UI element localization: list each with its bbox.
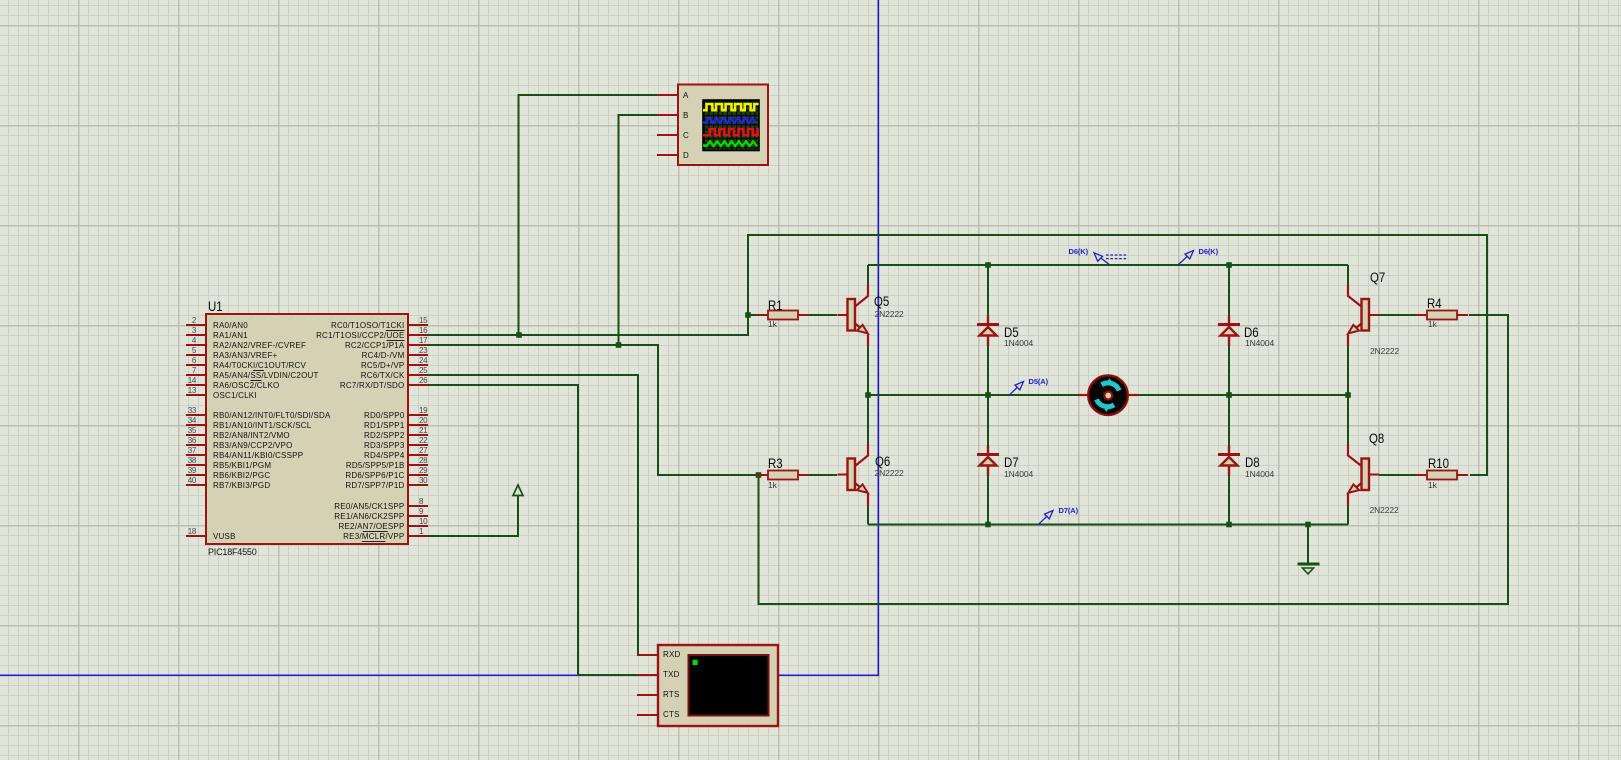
resistor R10 bbox=[1416, 471, 1468, 480]
R3 reference label bbox=[768, 457, 783, 470]
U1 pin 5 RA3/AN3/VREF+ bbox=[168, 346, 196, 355]
D8 reference label bbox=[1245, 456, 1260, 469]
U1 pin 30 RD7/SPP7/P1D bbox=[419, 476, 427, 485]
oscilloscope screen bbox=[703, 100, 759, 151]
transistor Q8 bbox=[1348, 444, 1379, 506]
wire D7 anode to ground rail bbox=[987, 476, 989, 525]
wire Q5 emitter to motor rail bbox=[867, 346, 869, 395]
resistor R4 bbox=[1416, 311, 1468, 320]
virtual terminal body bbox=[658, 645, 778, 726]
wire motor rail left bbox=[868, 394, 1078, 396]
U1 pin 6 RA4/T0CKI/C1OUT/RCV bbox=[168, 356, 196, 365]
wire D6 cathode riser bbox=[1228, 265, 1230, 316]
U1 PIC18F4550 body bbox=[206, 314, 408, 544]
transistor Q5 bbox=[838, 285, 869, 347]
wire Q8 collector to motor rail bbox=[1347, 395, 1349, 445]
U1 pin 38 RB5/KBI1/PGM bbox=[168, 456, 196, 465]
U1 pin 1 RE3/MCLR/VPP bbox=[419, 527, 423, 536]
wire motor rail right bbox=[1138, 394, 1348, 396]
wire Q7 emitter to motor rail bbox=[1347, 346, 1349, 395]
wire RC7 pin26 to terminal TXD bbox=[428, 385, 657, 675]
U1 pin 36 RB3/AN9/CCP2/VPO bbox=[168, 436, 196, 445]
node D5 anode junction bbox=[985, 392, 991, 398]
resistor R3 bbox=[757, 471, 809, 480]
oscilloscope trace channel C red bbox=[703, 129, 759, 135]
diode D6 bbox=[1218, 316, 1240, 346]
terminal pin label CTS bbox=[663, 710, 680, 720]
U1 pin 35 RB2/AN8/INT2/VMO bbox=[168, 426, 196, 435]
oscilloscope pin label A bbox=[683, 91, 689, 101]
oscilloscope body bbox=[678, 85, 768, 166]
wire Q8 emitter drop bbox=[1347, 505, 1349, 525]
wire Q5 collector riser bbox=[867, 265, 869, 285]
U1 pin 40 RB7/KBI3/PGD bbox=[168, 476, 196, 485]
R1 reference label bbox=[768, 299, 783, 312]
U1 pin 9 RE1/AN6/CK2SPP bbox=[419, 507, 423, 516]
net label arrow D7(A) bbox=[1038, 511, 1053, 525]
wire oscilloscope B to RC2 net bbox=[619, 115, 658, 345]
sheet border horizontal line bbox=[0, 674, 879, 676]
virtual terminal pin stubs RXD TXD RTS CTS bbox=[637, 655, 658, 715]
virtual terminal cursor bbox=[693, 660, 698, 665]
node R1 left junction bbox=[745, 312, 751, 318]
net label arrow D5(A) bbox=[1009, 382, 1024, 396]
wire Q8 base to R10 left bbox=[1379, 474, 1416, 476]
U1 pin 10 RE2/AN7/OESPP bbox=[419, 517, 427, 526]
transistor Q6 bbox=[838, 444, 869, 506]
net label arrow D6(K) left bbox=[1094, 253, 1109, 264]
D7 value label bbox=[1004, 470, 1033, 478]
wire R1 left node stub bbox=[748, 314, 758, 316]
wire R3 right to Q6 base bbox=[808, 474, 837, 476]
U1 pin 17 RC2/CCP1/P1A bbox=[419, 336, 427, 345]
node ground junction bbox=[1305, 522, 1311, 528]
wire R3 node to bottom rail to R4 right node bbox=[759, 315, 1509, 604]
net label D6(K) left bbox=[1069, 248, 1089, 256]
node D8 anode junction bbox=[1226, 522, 1232, 528]
U1 pin 37 RB4/AN11/KBI0/CSSPP bbox=[168, 446, 196, 455]
oscilloscope pin stubs A B C D bbox=[657, 95, 678, 155]
Q6 value label bbox=[875, 469, 904, 477]
D5 value label bbox=[1004, 339, 1033, 347]
U1 pin 15 RC0/T1OSO/T1CKI bbox=[419, 316, 427, 325]
wire VCC rail (Q5/Q7 collectors, D5/D6 cathodes) bbox=[868, 264, 1348, 266]
D6 value label bbox=[1245, 339, 1274, 347]
wire D6 anode to motor rail bbox=[1228, 346, 1230, 396]
wire R10 right bbox=[1470, 474, 1487, 476]
R4 value label bbox=[1428, 320, 1437, 328]
U1 pin 39 RB6/KBI2/PGC bbox=[168, 466, 196, 475]
wire Q7 base to R4 left bbox=[1379, 314, 1417, 316]
U1 right pin stubs bbox=[408, 325, 428, 536]
Q7 value label bbox=[1370, 347, 1399, 355]
node D7 anode junction bbox=[985, 522, 991, 528]
U1 pin 24 RC5/D+/VP bbox=[419, 356, 427, 365]
D7 reference label bbox=[1004, 456, 1019, 469]
U1 pin 28 RD5/SPP5/P1B bbox=[419, 456, 427, 465]
net label D7(A) bbox=[1059, 507, 1079, 515]
U1 pin 22 RD3/SPP3 bbox=[419, 436, 427, 445]
wire D8 cathode riser bbox=[1228, 395, 1230, 446]
node D6 cathode junction bbox=[1226, 262, 1232, 268]
ground symbol bbox=[1298, 564, 1320, 574]
R10 reference label bbox=[1428, 457, 1449, 470]
R10 value label bbox=[1428, 481, 1437, 489]
Q7 reference label bbox=[1370, 271, 1385, 284]
wire Q7 collector riser bbox=[1347, 265, 1349, 285]
wire RC2 net: pin17 to R3 node bbox=[428, 345, 759, 475]
wire Q6 emitter drop bbox=[867, 505, 869, 525]
U1 pin 14 RA6/OSC2/CLKO bbox=[168, 376, 196, 385]
node R3 left junction bbox=[756, 472, 762, 478]
terminal pin label RTS bbox=[663, 690, 680, 700]
U1 pin 29 RD6/SPP6/P1C bbox=[419, 466, 427, 475]
U1 pin 16 RC1/T1OSI/CCP2/UOE bbox=[419, 326, 427, 335]
U1 pin 7 RA5/AN4/SS/LVDIN/C2OUT bbox=[168, 366, 196, 375]
node motor left junction bbox=[865, 392, 871, 398]
U1 value label PIC18F4550 bbox=[208, 547, 257, 557]
wire ground rail (Q6/Q8 emitters, D7/D8 anodes) bbox=[868, 524, 1348, 526]
terminal pin label TXD bbox=[663, 670, 680, 680]
oscilloscope trace channel B blue bbox=[703, 117, 756, 123]
Q5 value label bbox=[875, 310, 904, 318]
sheet border vertical line bbox=[877, 0, 879, 676]
net label dashes bbox=[1106, 255, 1127, 259]
node motor right junction bbox=[1345, 392, 1351, 398]
transistor Q7 bbox=[1348, 285, 1379, 347]
oscilloscope trace channel D green bbox=[703, 141, 757, 146]
net label D5(A) bbox=[1029, 378, 1049, 386]
D6 reference label bbox=[1244, 326, 1259, 339]
Q8 value label bbox=[1370, 506, 1399, 514]
wire R1 right to Q5 base bbox=[808, 314, 837, 316]
U1 pin 21 RD2/SPP2 bbox=[419, 426, 427, 435]
node D5 cathode junction bbox=[985, 262, 991, 268]
wire D5 cathode riser bbox=[987, 265, 989, 316]
wire oscilloscope A to RC1 net bbox=[519, 95, 658, 335]
U1 pin 26 RC7/RX/DT/SDO bbox=[419, 376, 427, 385]
U1 pin 20 RD1/SPP1 bbox=[419, 416, 427, 425]
wire D7 cathode riser bbox=[987, 395, 989, 446]
wire D5 anode to motor rail bbox=[987, 346, 989, 396]
Q8 reference label bbox=[1369, 432, 1384, 445]
resistor R1 bbox=[757, 311, 809, 320]
U1 pin 2 RA0/AN0 bbox=[168, 316, 196, 325]
U1 pin 4 RA2/AN2/VREF-/CVREF bbox=[168, 336, 196, 345]
U1 pin 3 RA1/AN1 bbox=[168, 326, 196, 335]
U1 pin 18 VUSB bbox=[168, 527, 196, 536]
U1 pin 25 RC6/TX/CK bbox=[419, 366, 427, 375]
diode D5 bbox=[977, 316, 999, 346]
net label D6(K) right bbox=[1199, 248, 1219, 256]
oscilloscope pin label B bbox=[683, 111, 689, 121]
U1 pin 8 RE0/AN5/CK1SPP bbox=[419, 497, 423, 506]
wire Q6 collector to motor rail bbox=[867, 395, 869, 445]
diode D7 bbox=[977, 446, 999, 476]
U1 pin 27 RD4/SPP4 bbox=[419, 446, 427, 455]
U1 reference label bbox=[208, 300, 223, 313]
U1 pin 33 RB0/AN12/INT0/FLT0/SDI/SDA bbox=[168, 406, 196, 415]
node D6 anode junction bbox=[1226, 392, 1232, 398]
U1 pin 19 RD0/SPP0 bbox=[419, 406, 427, 415]
D8 value label bbox=[1245, 470, 1274, 478]
terminal pin label RXD bbox=[663, 650, 681, 660]
oscilloscope pin label D bbox=[683, 151, 689, 161]
node scope-A tap on RC1 net bbox=[516, 332, 522, 338]
input terminal arrow on RE3 net bbox=[513, 485, 523, 496]
virtual terminal screen bbox=[689, 655, 769, 716]
wire RC6 pin25 to terminal RXD bbox=[428, 375, 657, 655]
U1 pin 34 RB1/AN10/INT1/SCK/SCL bbox=[168, 416, 196, 425]
U1 pin 13 OSC1/CLKI bbox=[168, 386, 196, 395]
R1 value label bbox=[768, 320, 777, 328]
R4 reference label bbox=[1427, 297, 1442, 310]
net label arrow D6(K) right bbox=[1179, 251, 1194, 265]
D5 reference label bbox=[1004, 326, 1019, 339]
Q5 reference label bbox=[874, 295, 889, 308]
oscilloscope trace channel A yellow bbox=[703, 104, 759, 110]
wire RC1 net: pin16 to R1 node, top rail, down to R10 right bbox=[428, 235, 1487, 475]
R3 value label bbox=[768, 481, 777, 489]
oscilloscope pin label C bbox=[683, 131, 689, 141]
node scope-B tap on RC2 net bbox=[616, 342, 622, 348]
U1 left pin stubs bbox=[186, 325, 206, 536]
wire D8 anode to ground rail bbox=[1228, 476, 1230, 525]
U1 pin 23 RC4/D-/VM bbox=[419, 346, 427, 355]
wire ground stub bbox=[1307, 525, 1309, 563]
motor (DC motor between bridge arms) bbox=[1078, 375, 1138, 415]
Q6 reference label bbox=[875, 455, 890, 468]
wire RE3 pin1 to up-arrow terminal bbox=[428, 496, 518, 536]
diode D8 bbox=[1218, 446, 1240, 476]
